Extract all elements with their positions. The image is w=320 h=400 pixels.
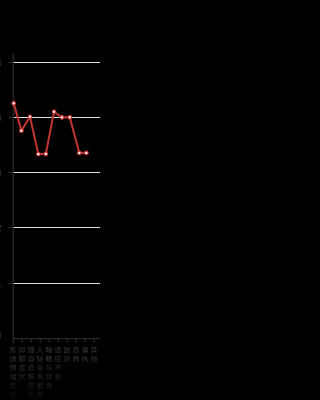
y-axis line	[12, 53, 14, 339]
x-axis tick 10	[93, 339, 95, 343]
svg-text:2: 2	[0, 223, 2, 234]
x-axis label 6 shiying	[55, 347, 61, 380]
x-axis label 8 kongbu	[73, 347, 80, 362]
x-axis tick 5	[48, 339, 50, 343]
data point 1 marker	[12, 102, 16, 106]
x-axis tick 9	[84, 339, 86, 343]
y-axis tick y=172.5	[9, 172, 14, 174]
x-axis tick 6	[57, 339, 59, 343]
x-axis label 10 jingshen	[91, 347, 98, 362]
data point 3 marker	[28, 115, 32, 119]
data point 5 marker	[44, 152, 48, 156]
x-axis label 2 yiyu	[19, 347, 26, 380]
x-axis label 1 jiaolv	[10, 347, 17, 398]
series line (red)	[14, 103, 87, 154]
x-axis line	[13, 338, 100, 340]
svg-text:5: 5	[0, 58, 2, 69]
data point 4 marker	[37, 152, 41, 156]
y-axis tick y=117.5	[9, 117, 14, 119]
gridline y=117.5	[14, 117, 100, 119]
x-axis tick 3	[30, 339, 32, 343]
x-axis tick 2	[21, 339, 23, 343]
y-axis tick y=62.5	[9, 62, 14, 64]
x-axis tick 7	[66, 339, 68, 343]
x-axis label 7 didui	[64, 347, 70, 362]
data point 10 marker	[85, 151, 89, 155]
data point 8 marker	[68, 116, 72, 120]
svg-text:3: 3	[0, 168, 2, 179]
data point 9 marker	[78, 151, 82, 155]
gridline y=283.5	[14, 283, 100, 285]
x-axis tick 8	[75, 339, 77, 343]
x-axis label 4 renji	[37, 347, 44, 398]
x-axis label 9 pianzhi	[82, 347, 89, 362]
y-axis tick y=283.5	[9, 283, 14, 285]
x-axis tick 1	[12, 339, 14, 343]
svg-text:4: 4	[0, 113, 2, 124]
svg-text:0: 0	[0, 331, 2, 342]
x-axis label 3 qiangpo	[28, 347, 35, 397]
gridline y=172.5	[14, 172, 100, 174]
x-axis tick 4	[39, 339, 41, 343]
svg-text:1: 1	[0, 279, 2, 290]
x-axis label 5 shuimian	[46, 347, 53, 389]
gridline y=227.5	[14, 227, 100, 229]
gridline y=62.5	[14, 62, 100, 64]
data point 2 marker	[20, 129, 24, 133]
data point 7 marker	[60, 116, 64, 120]
y-axis tick y=227.5	[9, 227, 14, 229]
data point 6 marker	[52, 110, 56, 114]
